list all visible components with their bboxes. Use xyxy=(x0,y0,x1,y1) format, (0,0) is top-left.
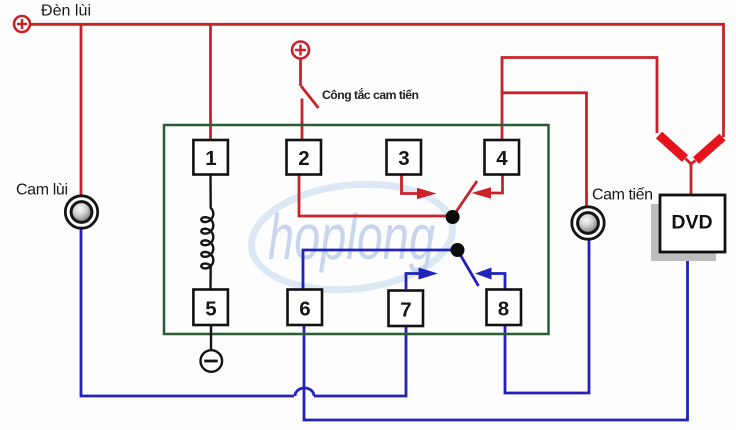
svg-text:DVD: DVD xyxy=(671,212,712,234)
svg-text:Cam lùi: Cam lùi xyxy=(16,182,68,199)
svg-text:2: 2 xyxy=(298,147,309,170)
svg-text:Công tắc cam tiến: Công tắc cam tiến xyxy=(322,87,419,102)
svg-text:6: 6 xyxy=(299,297,310,320)
svg-text:Đèn lùi: Đèn lùi xyxy=(41,3,91,20)
svg-text:Cam tiến: Cam tiến xyxy=(592,187,653,204)
svg-text:4: 4 xyxy=(496,147,508,170)
svg-text:8: 8 xyxy=(498,297,509,320)
svg-text:1: 1 xyxy=(205,147,216,170)
svg-text:5: 5 xyxy=(205,297,216,320)
svg-text:3: 3 xyxy=(398,147,409,170)
svg-text:7: 7 xyxy=(400,298,411,321)
svg-text:hoplong: hoplong xyxy=(268,201,435,273)
